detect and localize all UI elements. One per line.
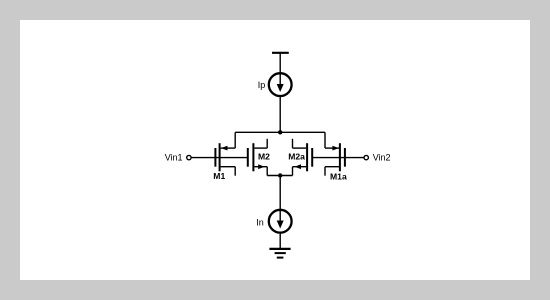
svg-text:M1: M1 <box>213 171 225 181</box>
svg-text:Vin2: Vin2 <box>373 152 391 162</box>
svg-text:M2: M2 <box>258 151 270 161</box>
svg-text:Ip: Ip <box>258 80 266 90</box>
svg-text:M1a: M1a <box>330 172 347 182</box>
svg-text:M2a: M2a <box>288 151 305 161</box>
svg-text:In: In <box>256 217 264 227</box>
svg-text:Vin1: Vin1 <box>165 152 183 162</box>
